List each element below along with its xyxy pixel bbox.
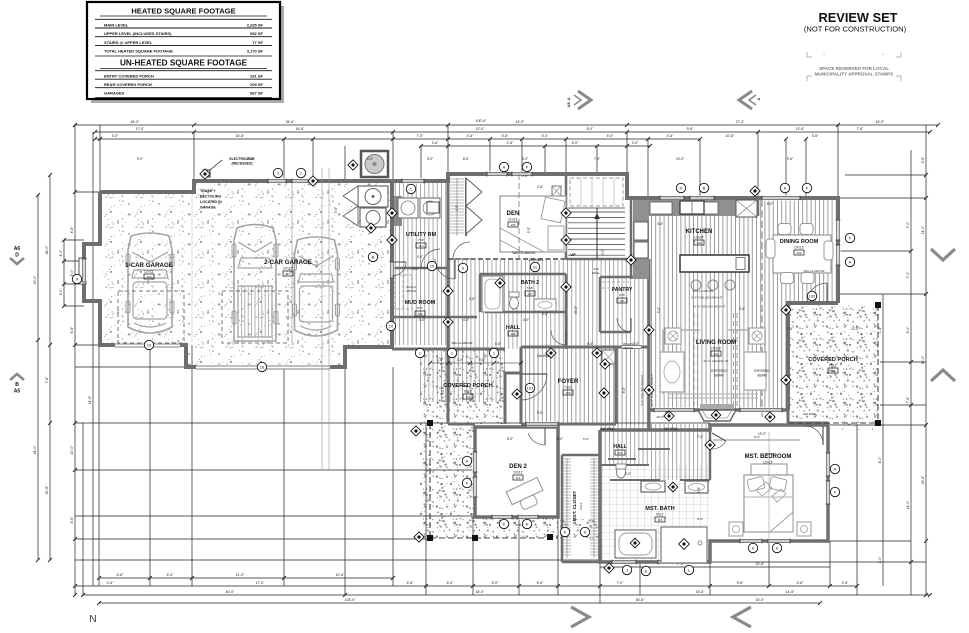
svg-text:117: 117 xyxy=(286,272,291,276)
svg-text:D: D xyxy=(680,185,683,190)
stair well bottom xyxy=(566,258,627,261)
dim ticks xyxy=(73,123,77,127)
svg-text:13'-6": 13'-6" xyxy=(796,127,805,131)
svg-text:UN-HEATED SQUARE FOOTAGE: UN-HEATED SQUARE FOOTAGE xyxy=(120,59,248,68)
dimension lines top xyxy=(75,124,938,126)
svg-text:7'-0": 7'-0" xyxy=(594,157,600,161)
svg-text:22'x22': 22'x22' xyxy=(283,267,293,271)
svg-text:3,170 SF: 3,170 SF xyxy=(247,49,264,54)
svg-text:4'-6": 4'-6" xyxy=(463,318,469,322)
svg-text:RECYCLING: RECYCLING xyxy=(200,195,221,199)
svg-text:10'-6": 10'-6" xyxy=(756,562,765,566)
svg-text:4'-0": 4'-0" xyxy=(455,205,459,211)
diamond markers xyxy=(308,176,318,186)
living bottom wall + bay xyxy=(649,408,788,412)
svg-text:TOTAL HEATED SQUARE FOOTAGE: TOTAL HEATED SQUARE FOOTAGE xyxy=(104,49,173,54)
svg-text:24'-0": 24'-0" xyxy=(756,598,765,602)
svg-text:261 SF: 261 SF xyxy=(250,74,263,79)
svg-text:A: A xyxy=(784,185,787,190)
svg-text:3'-0": 3'-0" xyxy=(657,307,661,313)
svg-text:102: 102 xyxy=(809,293,816,298)
svg-text:E: E xyxy=(645,568,648,573)
svg-text:MUNICIPALITY APPROVAL STAMPS: MUNICIPALITY APPROVAL STAMPS xyxy=(815,72,894,77)
svg-text:7'x11': 7'x11' xyxy=(564,386,572,390)
svg-text:9'-6": 9'-6" xyxy=(687,127,695,131)
svg-text:9'-6" CEILING HEIGHT: 9'-6" CEILING HEIGHT xyxy=(692,296,723,300)
svg-text:30'-0": 30'-0" xyxy=(921,355,925,364)
svg-text:4'-0": 4'-0" xyxy=(523,318,529,322)
svg-text:LIVING ROOM: LIVING ROOM xyxy=(696,340,736,346)
svg-text:2x6 WALL: 2x6 WALL xyxy=(664,427,679,431)
den bed xyxy=(500,196,566,252)
svg-text:16: 16 xyxy=(260,364,265,369)
svg-text:2'-6": 2'-6" xyxy=(107,581,115,585)
bath/hall divider xyxy=(600,464,649,466)
hall upper + bath2 xyxy=(448,260,649,349)
svg-text:4'-6": 4'-6" xyxy=(657,222,663,226)
svg-text:40'-0": 40'-0" xyxy=(226,590,235,594)
svg-text:24'-0": 24'-0" xyxy=(33,445,37,454)
windows kitchen top xyxy=(660,196,684,201)
svg-text:K: K xyxy=(584,529,587,534)
svg-text:7'-6": 7'-6" xyxy=(906,396,910,404)
svg-text:9'x11': 9'x11' xyxy=(656,513,664,517)
window utility top xyxy=(402,179,424,184)
svg-text:BEAM: BEAM xyxy=(757,374,766,378)
svg-text:15'x18': 15'x18' xyxy=(711,347,721,351)
svg-text:B: B xyxy=(703,185,706,190)
svg-text:3'-0": 3'-0" xyxy=(697,517,703,521)
svg-text:11'x12': 11'x12' xyxy=(508,218,518,222)
svg-text:107: 107 xyxy=(527,292,532,296)
svg-text:WALL: WALL xyxy=(592,271,600,275)
utility room xyxy=(394,196,402,226)
svg-text:A: A xyxy=(466,458,469,463)
bath2 right wall xyxy=(565,274,568,349)
top right strip stipple above bedroom xyxy=(828,423,878,430)
svg-text:16'-0": 16'-0" xyxy=(656,415,664,419)
svg-text:N: N xyxy=(89,614,96,625)
svg-text:7'-0": 7'-0" xyxy=(617,581,625,585)
closet combs xyxy=(563,458,571,460)
electric box xyxy=(203,170,210,177)
den2 xyxy=(475,427,558,517)
svg-text:103: 103 xyxy=(696,241,701,245)
svg-text:UPPER LEVEL (INCLUDES STAIRS): UPPER LEVEL (INCLUDES STAIRS) xyxy=(104,31,172,36)
svg-text:4'-0": 4'-0" xyxy=(412,267,418,271)
windows den2 left xyxy=(473,452,478,472)
svg-text:102: 102 xyxy=(796,251,801,255)
svg-text:COVERED PORCH: COVERED PORCH xyxy=(808,357,857,363)
svg-text:EXPOSED: EXPOSED xyxy=(754,369,770,373)
svg-text:(NOT FOR CONSTRUCTION): (NOT FOR CONSTRUCTION) xyxy=(804,25,907,34)
nightstand fixtures at foot xyxy=(729,522,743,536)
lower wing interior xyxy=(562,455,600,562)
svg-text:6'-6": 6'-6" xyxy=(502,134,510,138)
svg-text:7'-6": 7'-6" xyxy=(857,127,865,131)
svg-text:104: 104 xyxy=(619,299,624,303)
svg-text:113: 113 xyxy=(516,476,521,480)
svg-text:4'-6": 4'-6" xyxy=(697,487,701,493)
entry porch stipple xyxy=(420,350,505,538)
vanities xyxy=(641,481,665,492)
nook stipple right of den2 xyxy=(560,519,600,540)
window/door markers xyxy=(499,162,508,171)
svg-text:6'-0": 6'-0" xyxy=(542,134,550,138)
truck in 2-car garage xyxy=(234,225,276,342)
svg-text:5'-6": 5'-6" xyxy=(495,342,501,346)
svg-text:1'-6": 1'-6" xyxy=(878,326,882,334)
svg-text:103'-0": 103'-0" xyxy=(345,598,356,602)
foyer closet xyxy=(602,350,615,364)
svg-text:5'-0": 5'-0" xyxy=(583,437,589,441)
svg-text:HEATED SQUARE FOOTAGE: HEATED SQUARE FOOTAGE xyxy=(131,7,235,16)
svg-text:118: 118 xyxy=(147,275,152,279)
svg-text:3'-0": 3'-0" xyxy=(633,342,639,346)
svg-text:7'-6": 7'-6" xyxy=(45,376,49,384)
mud bottom wall xyxy=(392,316,477,319)
window foyer front xyxy=(526,422,558,427)
svg-text:5'-0": 5'-0" xyxy=(507,437,513,441)
svg-text:REAR COVERED PORCH: REAR COVERED PORCH xyxy=(104,82,152,87)
svg-text:K: K xyxy=(503,521,506,526)
svg-text:A6: A6 xyxy=(14,246,21,252)
dashed wall-above line kitchen/dining xyxy=(761,200,763,420)
svg-text:9'-0": 9'-0" xyxy=(601,249,605,255)
extension lines horizontal right xyxy=(845,174,926,176)
svg-text:2'-0": 2'-0" xyxy=(557,437,563,441)
fireplace bay xyxy=(700,404,734,409)
svg-text:14'-0": 14'-0" xyxy=(906,500,910,509)
windows bedroom bottom xyxy=(740,539,762,544)
svg-text:9'x12': 9'x12' xyxy=(829,364,838,368)
furnace bump-out xyxy=(361,151,388,177)
svg-text:FOYER: FOYER xyxy=(558,379,579,385)
svg-text:7'-0": 7'-0" xyxy=(697,435,703,439)
kitchen sink top xyxy=(680,201,704,214)
svg-text:A5: A5 xyxy=(566,102,571,108)
den right wall xyxy=(565,174,568,259)
living furniture group xyxy=(663,330,765,394)
svg-text:4'-6": 4'-6" xyxy=(407,581,415,585)
staircase xyxy=(568,211,625,213)
svg-text:2x6 WALL: 2x6 WALL xyxy=(803,412,817,416)
svg-text:2x6 WALL: 2x6 WALL xyxy=(537,354,552,358)
svg-text:EXPOSED: EXPOSED xyxy=(711,369,727,373)
svg-text:2,265 SF: 2,265 SF xyxy=(247,23,264,28)
extension lines horizontal left xyxy=(75,191,100,193)
kitchen counters xyxy=(633,200,757,216)
svg-text:16'-0": 16'-0" xyxy=(33,275,37,284)
svg-text:10'-6": 10'-6" xyxy=(336,573,345,577)
den niche xyxy=(552,186,561,196)
svg-text:11'-0": 11'-0" xyxy=(236,573,245,577)
dimension lines left xyxy=(74,125,76,595)
window dining top xyxy=(762,196,800,201)
svg-text:A5: A5 xyxy=(14,389,21,395)
water heater + softener closet xyxy=(358,186,388,207)
svg-text:BEAM: BEAM xyxy=(714,374,723,378)
svg-text:19'-6": 19'-6" xyxy=(696,590,705,594)
bath2 fixtures xyxy=(482,276,503,312)
svg-text:2'-0": 2'-0" xyxy=(878,556,882,564)
svg-text:3'-6": 3'-6" xyxy=(469,297,475,301)
svg-text:4'-0": 4'-0" xyxy=(417,255,423,259)
svg-text:DEN: DEN xyxy=(507,211,520,217)
square footage table xyxy=(91,6,284,103)
svg-text:K: K xyxy=(564,529,567,534)
svg-text:13'-8": 13'-8" xyxy=(766,452,774,456)
svg-text:110: 110 xyxy=(419,244,424,248)
svg-text:2'-6": 2'-6" xyxy=(739,307,745,311)
svg-text:20'-0": 20'-0" xyxy=(70,445,74,454)
svg-text:2'-6": 2'-6" xyxy=(842,581,850,585)
foyer xyxy=(521,347,616,424)
hall strip to foyer xyxy=(616,347,649,425)
svg-text:9'-6": 9'-6" xyxy=(787,157,793,161)
svg-text:2-CAR GARAGE: 2-CAR GARAGE xyxy=(264,259,312,266)
dining bottom / living right / living bottom xyxy=(788,303,838,410)
car in 2-car garage xyxy=(295,237,338,336)
lower hall xyxy=(600,424,649,465)
svg-text:9'-0": 9'-0" xyxy=(70,269,74,277)
svg-text:4'-0": 4'-0" xyxy=(59,288,63,296)
windows den top xyxy=(487,172,507,177)
svg-text:6'-0": 6'-0" xyxy=(447,581,455,585)
car in 1-car garage xyxy=(128,233,172,333)
den bottom dashed 2x6 wall xyxy=(448,258,566,260)
svg-text:COVERED PORCH: COVERED PORCH xyxy=(443,383,492,389)
den bifold doors xyxy=(466,178,482,234)
svg-text:ABOVE: ABOVE xyxy=(623,346,633,350)
wood floor hatch: kitchen+dining xyxy=(631,198,838,410)
svg-text:14'-6": 14'-6" xyxy=(88,395,92,404)
svg-text:K: K xyxy=(752,545,755,550)
svg-text:KITCHEN: KITCHEN xyxy=(686,229,713,235)
extension lines vertical bottom xyxy=(82,423,84,595)
svg-text:112: 112 xyxy=(831,369,836,373)
stamp area xyxy=(807,52,812,57)
svg-text:8'-0": 8'-0" xyxy=(463,157,469,161)
svg-text:14'-0": 14'-0" xyxy=(921,225,925,234)
window mud left wall xyxy=(390,262,395,278)
svg-text:LOCATED IN: LOCATED IN xyxy=(200,200,222,204)
svg-text:116: 116 xyxy=(658,518,663,522)
svg-text:2'-6": 2'-6" xyxy=(537,185,543,189)
svg-text:34'-0": 34'-0" xyxy=(476,590,485,594)
master hall/wc xyxy=(649,424,710,480)
svg-text:30'-6": 30'-6" xyxy=(45,485,49,494)
svg-text:867 SF: 867 SF xyxy=(250,91,263,96)
svg-text:5'-0": 5'-0" xyxy=(492,581,500,585)
den2 desk set xyxy=(506,478,547,514)
svg-text:1'-6": 1'-6" xyxy=(437,358,443,362)
bifold door triangles garage xyxy=(343,186,358,226)
svg-text:7'-0": 7'-0" xyxy=(906,221,910,229)
window garage left xyxy=(79,258,86,284)
living beams dashed xyxy=(694,313,698,407)
svg-text:HALL: HALL xyxy=(506,325,521,331)
svg-text:7'x9': 7'x9' xyxy=(418,238,424,242)
svg-text:DINING ROOM: DINING ROOM xyxy=(780,239,819,245)
svg-text:5'-0": 5'-0" xyxy=(527,227,531,233)
kitchen/dining wall stub xyxy=(757,199,760,216)
svg-text:34'-6": 34'-6" xyxy=(286,120,295,124)
svg-text:UP: UP xyxy=(570,252,576,257)
svg-text:A: A xyxy=(756,97,761,100)
bedroom crossing extension line xyxy=(768,432,770,538)
svg-text:4'-6": 4'-6" xyxy=(70,226,74,234)
svg-text:109: 109 xyxy=(417,312,422,316)
svg-text:12'-0": 12'-0" xyxy=(851,327,859,331)
utility right / den left wall xyxy=(447,174,450,349)
svg-text:3'-0": 3'-0" xyxy=(367,157,373,161)
svg-text:952 SF: 952 SF xyxy=(250,31,263,36)
svg-text:STAIRS @ UPPER LEVEL: STAIRS @ UPPER LEVEL xyxy=(104,40,153,45)
rear covered porch stipple xyxy=(788,305,878,423)
svg-text:A: A xyxy=(566,97,571,100)
pantry walls xyxy=(600,277,649,332)
svg-text:D: D xyxy=(15,253,19,259)
svg-text:5'x8': 5'x8' xyxy=(527,286,533,290)
svg-text:4'-0": 4'-0" xyxy=(59,249,63,257)
svg-text:MAIN LEVEL: MAIN LEVEL xyxy=(104,23,129,28)
svg-text:3'-6": 3'-6" xyxy=(812,134,820,138)
den closet comb xyxy=(450,178,464,180)
svg-text:WALLS ABOVE: WALLS ABOVE xyxy=(512,251,536,255)
horizontal grid lines lower-left xyxy=(75,422,710,424)
svg-text:101: 101 xyxy=(527,385,534,390)
svg-text:B: B xyxy=(372,254,375,259)
exterior walls: north wing xyxy=(100,174,838,303)
svg-text:4'-0": 4'-0" xyxy=(419,318,425,322)
svg-text:6'-6": 6'-6" xyxy=(70,326,74,334)
svg-text:ENTRY COVERED PORCH: ENTRY COVERED PORCH xyxy=(104,74,154,79)
svg-text:WALLS ABOVE: WALLS ABOVE xyxy=(451,341,472,345)
svg-text:10'-0" CEILING HT: 10'-0" CEILING HT xyxy=(703,359,728,363)
dimension lines right xyxy=(925,125,927,595)
svg-text:3'-0": 3'-0" xyxy=(632,141,640,145)
hall/bath2 walls xyxy=(480,273,566,276)
porch hatch upper part xyxy=(420,350,505,402)
svg-text:6'-0": 6'-0" xyxy=(572,141,580,145)
svg-text:4'-6": 4'-6" xyxy=(667,134,675,138)
svg-text:3'-6": 3'-6" xyxy=(921,156,925,164)
svg-text:100'-6": 100'-6" xyxy=(476,119,487,123)
dining door arc to porch xyxy=(807,283,827,303)
svg-text:5'-0": 5'-0" xyxy=(542,312,548,316)
utility/mud divider xyxy=(392,267,448,270)
svg-text:ABOVE: ABOVE xyxy=(406,289,416,293)
svg-text:16'-6": 16'-6" xyxy=(296,127,305,131)
svg-text:114: 114 xyxy=(618,451,623,455)
svg-text:6'x7': 6'x7' xyxy=(417,306,423,310)
svg-text:8'-0": 8'-0" xyxy=(878,456,882,464)
svg-text:5'-0": 5'-0" xyxy=(607,134,615,138)
svg-text:HALL: HALL xyxy=(613,444,626,450)
svg-text:209 SF: 209 SF xyxy=(250,82,263,87)
svg-text:9'-6": 9'-6" xyxy=(70,516,74,524)
svg-text:13'-0": 13'-0" xyxy=(758,432,766,436)
svg-text:46'-0": 46'-0" xyxy=(131,120,140,124)
windows garage top xyxy=(268,179,286,184)
svg-text:7'-0": 7'-0" xyxy=(906,271,910,279)
svg-text:5'-0": 5'-0" xyxy=(906,326,910,334)
utility + mud xyxy=(392,182,448,345)
svg-text:10'-0": 10'-0" xyxy=(441,386,445,394)
lower wing exterior xyxy=(600,423,828,562)
svg-text:GARAGES: GARAGES xyxy=(104,91,125,96)
bath wc wall xyxy=(610,479,710,481)
svg-text:34'-0": 34'-0" xyxy=(574,306,578,314)
svg-text:4'-0": 4'-0" xyxy=(167,573,175,577)
svg-text:A: A xyxy=(849,259,852,264)
svg-text:J: J xyxy=(626,567,628,572)
utility/mud left wall xyxy=(391,181,394,347)
svg-text:100: 100 xyxy=(565,391,570,395)
svg-text:K: K xyxy=(526,521,529,526)
svg-text:17'-0": 17'-0" xyxy=(136,127,145,131)
svg-text:A: A xyxy=(503,164,506,169)
svg-text:24'-0": 24'-0" xyxy=(516,120,525,124)
windows bath bottom xyxy=(612,560,636,565)
svg-text:3'-0": 3'-0" xyxy=(112,134,120,138)
garage floor stipple xyxy=(101,182,390,366)
svg-text:27'-0": 27'-0" xyxy=(736,120,745,124)
svg-text:WALLS ABOVE: WALLS ABOVE xyxy=(692,289,713,293)
windows den2 bottom xyxy=(492,515,512,520)
shower xyxy=(661,527,707,563)
svg-text:108: 108 xyxy=(510,332,515,336)
svg-text:10: 10 xyxy=(389,323,394,328)
svg-text:16'-6": 16'-6" xyxy=(236,134,245,138)
svg-text:9'-0": 9'-0" xyxy=(537,411,543,415)
svg-text:17'-0": 17'-0" xyxy=(256,581,265,585)
svg-text:1-CAR GARAGE: 1-CAR GARAGE xyxy=(125,262,173,269)
svg-text:(RECESSED): (RECESSED) xyxy=(232,162,253,166)
svg-text:10: 10 xyxy=(147,342,152,347)
svg-text:3'-0": 3'-0" xyxy=(625,472,631,476)
svg-text:GARAGE: GARAGE xyxy=(200,206,216,210)
svg-text:77 SF: 77 SF xyxy=(252,40,263,45)
svg-text:WALLS ABOVE: WALLS ABOVE xyxy=(803,269,824,273)
toilet xyxy=(617,466,626,478)
dimension lines bottom xyxy=(99,577,393,579)
svg-text:5'-6": 5'-6" xyxy=(537,581,545,585)
svg-text:10'x11': 10'x11' xyxy=(513,471,523,475)
svg-text:5'-6": 5'-6" xyxy=(797,581,805,585)
svg-text:2'-6": 2'-6" xyxy=(522,174,528,178)
svg-text:TRASH +: TRASH + xyxy=(200,189,215,193)
tub xyxy=(615,530,656,558)
svg-text:3'-6": 3'-6" xyxy=(479,358,485,362)
svg-text:13'x14': 13'x14' xyxy=(694,236,704,240)
dining table xyxy=(773,235,831,273)
svg-text:12'-0": 12'-0" xyxy=(476,127,485,131)
svg-text:3'-0": 3'-0" xyxy=(427,157,433,161)
svg-text:36'-6": 36'-6" xyxy=(636,598,645,602)
svg-text:10'x13': 10'x13' xyxy=(794,246,804,250)
svg-text:MST. CLOSET: MST. CLOSET xyxy=(572,491,577,522)
extension lines vertical top xyxy=(99,125,101,192)
svg-text:REVIEW SET: REVIEW SET xyxy=(819,10,898,25)
strip wall below living xyxy=(648,410,651,430)
svg-text:14'-6": 14'-6" xyxy=(786,590,795,594)
svg-text:SPACE RESERVED FOR LOCAL: SPACE RESERVED FOR LOCAL xyxy=(819,66,889,71)
windows dining right xyxy=(836,220,841,240)
svg-text:38'-0": 38'-0" xyxy=(45,245,49,254)
svg-text:5'-0": 5'-0" xyxy=(665,411,671,415)
